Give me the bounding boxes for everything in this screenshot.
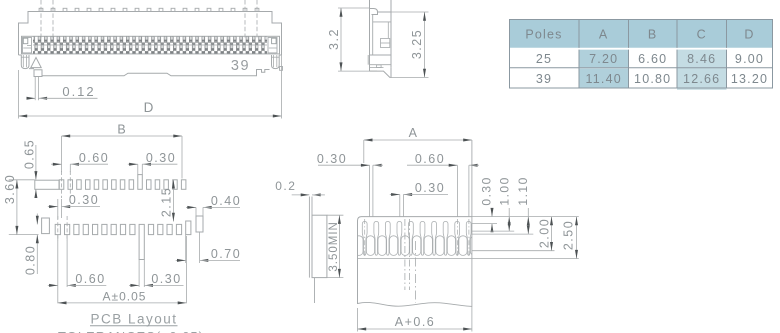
- svg-text:0.30: 0.30: [479, 176, 493, 205]
- svg-text:0.30: 0.30: [415, 181, 445, 195]
- svg-text:D: D: [744, 28, 754, 42]
- dim 0.2: [292, 194, 310, 196]
- svg-text:A±0.05: A±0.05: [103, 289, 147, 303]
- front view connector body outline: [19, 12, 282, 56]
- svg-text:11.40: 11.40: [586, 72, 622, 86]
- svg-text:TOLERANCES(±0.05): TOLERANCES(±0.05): [58, 329, 204, 333]
- pcb dim 0.30 top: [128, 163, 138, 165]
- svg-text:0.80: 0.80: [24, 245, 38, 275]
- cable dim A: [364, 139, 472, 141]
- cable comb centerline dashes: [364, 219, 366, 258]
- pcb dim 0.70: [185, 235, 187, 263]
- svg-text:0.65: 0.65: [23, 139, 37, 169]
- svg-text:39: 39: [536, 72, 552, 86]
- right nail latch: [272, 55, 280, 69]
- cable break line wavy: [358, 302, 472, 306]
- left ledge: [19, 54, 22, 56]
- svg-text:A+0.6: A+0.6: [395, 315, 436, 329]
- pin centerlines dashed: [41, 0, 257, 38]
- dim 2.50: [576, 217, 578, 259]
- pcb dim 3.60: [9, 179, 35, 181]
- svg-text:B: B: [648, 28, 658, 42]
- svg-text:10.80: 10.80: [634, 72, 671, 86]
- dim 3.50MIN: [327, 214, 344, 216]
- dim D line: [19, 115, 282, 117]
- svg-text:1.10: 1.10: [516, 176, 530, 205]
- pcb dim 0.30 bottom: [138, 260, 140, 288]
- pcb top pads: [59, 175, 186, 190]
- dim D extension lines: [18, 70, 20, 119]
- svg-text:0.30: 0.30: [151, 272, 181, 286]
- svg-text:D: D: [144, 100, 155, 115]
- svg-text:C: C: [697, 28, 707, 42]
- pcb top solder bar: [35, 180, 59, 189]
- svg-text:25: 25: [536, 52, 552, 66]
- cable conductor centerlines: [404, 219, 406, 290]
- table A column cells: [579, 50, 629, 68]
- left nail latch: [21, 55, 29, 69]
- svg-text:0.12: 0.12: [62, 84, 95, 99]
- svg-text:2.00: 2.00: [537, 218, 551, 248]
- cable dim 0.60: [407, 164, 457, 166]
- cable upper fingers: [362, 222, 471, 256]
- svg-text:3.25: 3.25: [410, 29, 424, 59]
- svg-text:A: A: [409, 126, 418, 140]
- pcb dim 2.15: [172, 180, 174, 222]
- svg-text:0.60: 0.60: [79, 151, 109, 165]
- pcb dim 0.60 bottom: [57, 235, 59, 304]
- svg-text:3.2: 3.2: [327, 28, 341, 50]
- cable side lower tail: [314, 278, 316, 303]
- cable side stiffener: [312, 215, 327, 277]
- left end block of band: [23, 38, 32, 53]
- cable ref lines right: [472, 216, 579, 218]
- contact band mid line: [33, 44, 267, 46]
- svg-text:Poles: Poles: [525, 28, 562, 42]
- svg-text:0.2: 0.2: [275, 179, 296, 193]
- dim 0.12 extension lines: [34, 77, 36, 101]
- svg-text:0.30: 0.30: [317, 152, 347, 166]
- dim 0.12 line and arrows: [27, 97, 36, 99]
- pcb bottom anchor square: [42, 218, 50, 234]
- svg-text:0.30: 0.30: [146, 151, 176, 165]
- dim A plus 0.6: [357, 308, 359, 332]
- polarity triangle: [31, 58, 41, 68]
- svg-text:13.20: 13.20: [731, 72, 768, 86]
- pcb dim B line: [62, 135, 183, 137]
- dim 3.25 extensions: [391, 11, 429, 13]
- cable side view thin section: [308, 197, 310, 278]
- svg-text:9.00: 9.00: [735, 52, 764, 66]
- cable lower stadium slots: [355, 236, 479, 256]
- table header white gap: [510, 48, 772, 50]
- cable right edge and A extension: [471, 140, 473, 307]
- pcb dim 0.80: [36, 214, 38, 225]
- svg-text:A: A: [599, 28, 609, 42]
- svg-text:39: 39: [231, 58, 250, 74]
- right ledge: [279, 54, 281, 56]
- cable outline: [358, 217, 472, 304]
- dim 2.00: [551, 217, 553, 251]
- table borders: [510, 20, 773, 89]
- svg-text:0.60: 0.60: [75, 272, 105, 286]
- cable coverlay edge line: [358, 258, 579, 260]
- contact band pattern fill: [33, 37, 267, 54]
- pcb dim 0.40: [195, 207, 197, 216]
- svg-text:B: B: [117, 123, 126, 137]
- side view solder foot: [370, 68, 392, 78]
- svg-text:2.50: 2.50: [561, 220, 575, 250]
- side view body: [368, 0, 391, 71]
- pcb isolated pad right: [196, 216, 203, 232]
- svg-text:8.46: 8.46: [687, 52, 716, 66]
- pcb dim 0.65: [35, 145, 37, 180]
- svg-text:7.20: 7.20: [589, 52, 618, 66]
- svg-text:0.40: 0.40: [211, 194, 241, 208]
- svg-text:PCB Layout: PCB Layout: [90, 312, 177, 327]
- pcb bottom pad centerlines: [57, 216, 59, 241]
- svg-text:0.60: 0.60: [415, 152, 445, 166]
- right end block of band: [268, 38, 277, 53]
- svg-text:1.00: 1.00: [498, 176, 512, 205]
- svg-text:0.70: 0.70: [211, 247, 241, 261]
- front view top pins row: [39, 8, 259, 11]
- svg-text:6.60: 6.60: [638, 52, 667, 66]
- svg-text:2.15: 2.15: [160, 187, 174, 217]
- dim 3.2 extensions: [338, 7, 370, 9]
- svg-text:3.50MIN: 3.50MIN: [328, 221, 340, 271]
- pcb dim 0.60 top: [51, 163, 62, 165]
- bottom profile of body: [29, 69, 270, 77]
- pcb dim 0.30 stagger: [48, 206, 58, 208]
- dim 3.25 line: [424, 12, 426, 77]
- svg-text:3.60: 3.60: [3, 174, 17, 204]
- cable dim 0.30 mid: [390, 194, 400, 196]
- right small foot: [280, 67, 283, 71]
- pcb bottom pads: [55, 221, 191, 260]
- cable dim 0.30 left: [318, 164, 370, 166]
- table C column cell: [677, 49, 727, 90]
- pcb dim B extensions: [61, 136, 63, 172]
- pcb top pad centerlines: [61, 171, 63, 198]
- contact band outer: [22, 36, 280, 54]
- svg-text:12.66: 12.66: [683, 72, 720, 86]
- pcb dim A pm 0.05: [185, 236, 187, 303]
- pin1 tab: [34, 70, 42, 77]
- table header background: [510, 20, 773, 48]
- svg-text:0.30: 0.30: [69, 193, 99, 207]
- dim 3.2 line: [340, 8, 342, 71]
